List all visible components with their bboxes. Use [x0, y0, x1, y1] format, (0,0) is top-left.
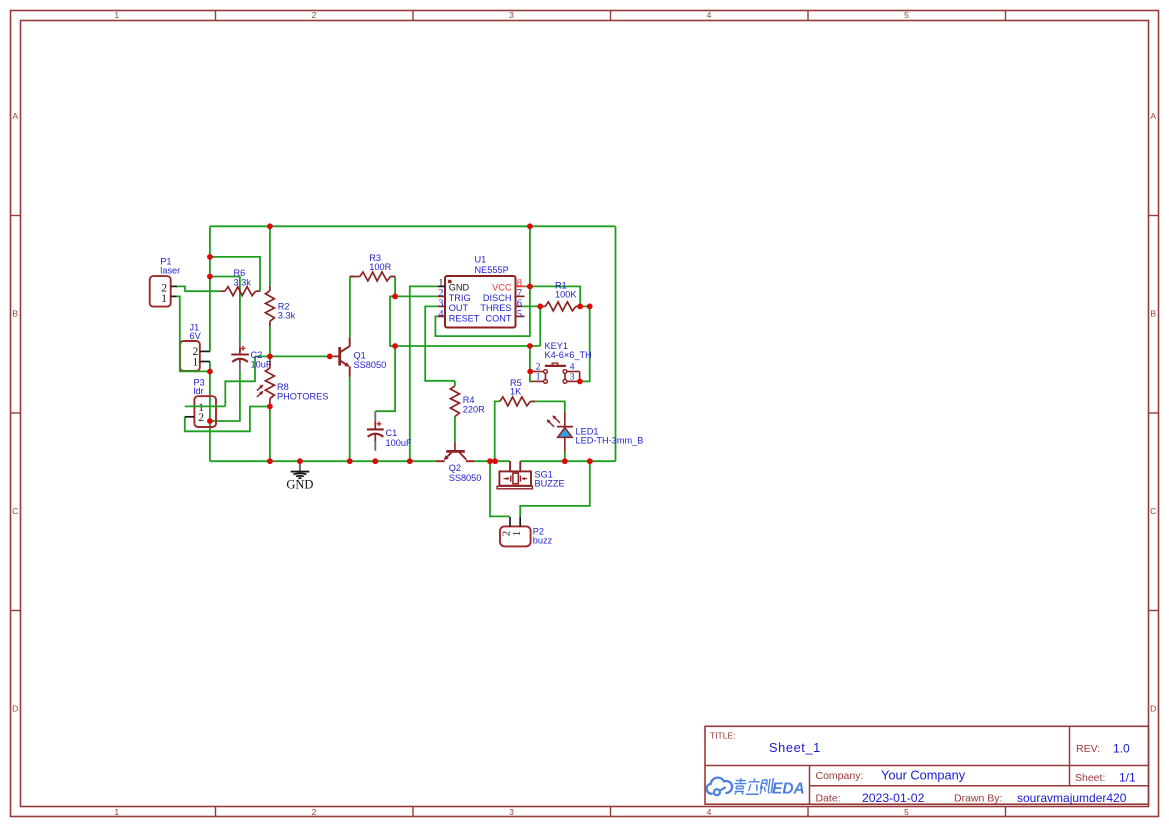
svg-text:3: 3 [509, 10, 514, 20]
svg-text:100R: 100R [369, 262, 391, 272]
svg-text:B: B [1150, 308, 1156, 318]
svg-text:D: D [1150, 703, 1156, 713]
svg-text:B: B [12, 308, 18, 318]
junction (375.3,461.2) [372, 458, 378, 464]
connector P3 (ldr) [185, 378, 216, 427]
wire THRES drop [539, 306, 541, 346]
svg-text:4: 4 [707, 10, 712, 20]
svg-text:souravmajumder420: souravmajumder420 [1017, 791, 1127, 805]
svg-text:1: 1 [193, 356, 199, 368]
svg-text:3.3k: 3.3k [234, 277, 252, 287]
svg-text:Sheet:: Sheet: [1075, 772, 1105, 784]
wire OUT to R4 [425, 306, 455, 380]
wire R5 to LED [530, 401, 564, 411]
junction (299.9,461.2) [297, 458, 303, 464]
wire P3 pin1 row [185, 405, 226, 407]
svg-text:3: 3 [570, 373, 575, 383]
wire node to R8 [269, 356, 271, 361]
pushbutton KEY1 K4-6x6_TH [531, 341, 592, 384]
svg-text:5: 5 [517, 309, 522, 320]
wire right loop [615, 226, 617, 461]
svg-text:1K: 1K [510, 387, 522, 397]
wire R2 to node [269, 326, 271, 356]
junction (490,461.2) [487, 458, 493, 464]
svg-text:RESET: RESET [449, 314, 480, 324]
svg-text:DISCH: DISCH [483, 293, 512, 303]
svg-text:Drawn By:: Drawn By: [954, 793, 1002, 805]
svg-text:buzz: buzz [533, 535, 553, 545]
wire Q1 collector to R3 [349, 277, 351, 338]
wire C2 top link [210, 277, 240, 343]
junction (329.8,356.4) [327, 354, 333, 360]
wire VCC top drop [529, 226, 531, 286]
svg-text:TITLE:: TITLE: [710, 731, 736, 741]
resistor R5 1K [500, 378, 535, 406]
capacitor C1 100uF [367, 411, 412, 451]
junction (579.9,381.4) [577, 379, 583, 385]
wire R5 drop [495, 401, 500, 461]
svg-text:BUZZE: BUZZE [535, 479, 565, 489]
junction (209.9,256.9) [207, 254, 213, 260]
junction (349.7,461.2) [347, 458, 353, 464]
svg-text:1: 1 [536, 373, 541, 383]
wire R3 to TRIG column [394, 277, 396, 297]
wire R8 bottom drop [269, 407, 271, 462]
svg-text:4: 4 [570, 363, 575, 373]
svg-text:Q2: Q2 [449, 463, 461, 473]
wire THRES [522, 305, 540, 307]
svg-text:ldr: ldr [194, 386, 204, 396]
resistor R6 3.3k [220, 268, 260, 296]
svg-text:5: 5 [904, 807, 909, 817]
svg-text:REV:: REV: [1076, 743, 1100, 755]
svg-text:6: 6 [517, 299, 522, 310]
resistor R3 100R [350, 253, 395, 281]
junction (529.9,226.3) [527, 223, 533, 229]
svg-text:1: 1 [161, 293, 167, 305]
svg-text:R4: R4 [463, 395, 475, 405]
svg-text:Your Company: Your Company [881, 767, 966, 782]
svg-text:2023-01-02: 2023-01-02 [862, 791, 925, 805]
svg-text:2: 2 [312, 807, 317, 817]
svg-text:A: A [1150, 111, 1156, 121]
svg-text:3: 3 [509, 807, 514, 817]
wire P2 pin2 loop [490, 461, 510, 516]
svg-text:Q1: Q1 [354, 350, 366, 360]
wire GND vertical [209, 371, 211, 461]
svg-text:K4-6×6_TH: K4-6×6_TH [545, 350, 592, 360]
svg-text:LED-TH-3mm_B: LED-TH-3mm_B [576, 436, 644, 446]
wire R3 right stub [391, 276, 396, 278]
junction (529.9,286.4) [527, 284, 533, 290]
wire R3 left stub [350, 276, 355, 278]
junction (564.8,461.2) [562, 458, 568, 464]
wire +V vertical [209, 226, 211, 351]
wire P1 pin1 to node [177, 296, 210, 371]
svg-text:100uF: 100uF [386, 438, 412, 448]
svg-text:100K: 100K [555, 290, 577, 300]
svg-text:2: 2 [312, 10, 317, 20]
svg-text:1: 1 [114, 807, 119, 817]
wire R4 to Q2 base [454, 417, 456, 443]
svg-text:4: 4 [707, 807, 712, 817]
junction (530.2,371.5) [527, 369, 533, 375]
wire rail SG1 to loop [520, 460, 615, 462]
resistor R2 3.3k [265, 286, 295, 327]
junction (495.1,461.2) [492, 458, 498, 464]
wire R6 right link [210, 257, 260, 291]
junction (209.9,421.0) [207, 418, 213, 424]
svg-text:1: 1 [114, 10, 119, 20]
svg-text:4: 4 [438, 309, 444, 320]
svg-text:C1: C1 [386, 428, 398, 438]
wire RESET to VCC [435, 286, 530, 336]
junction (209.9,276.5) [207, 274, 213, 280]
svg-text:220R: 220R [463, 405, 485, 415]
wire P3 pin1 to base node [225, 356, 255, 406]
svg-text:A: A [12, 111, 18, 121]
svg-text:1: 1 [511, 531, 523, 537]
junction (269.9,356.4) [267, 354, 273, 360]
junction (209.9,371.5) [207, 369, 213, 375]
svg-text:GND: GND [449, 282, 470, 292]
svg-text:VCC: VCC [492, 282, 512, 292]
transistor Q1 SS8050 [333, 337, 386, 377]
svg-text:1.0: 1.0 [1113, 742, 1130, 756]
wire C2 bottom return [210, 371, 240, 421]
junction (589.8,461.2) [587, 458, 593, 464]
connector P2 (buzz) [500, 517, 553, 546]
svg-text:D: D [12, 703, 18, 713]
svg-text:TRIG: TRIG [449, 293, 471, 303]
junction (269.9,406.5) [267, 404, 273, 410]
connector J1 (6V) [180, 322, 210, 371]
junction (540.2,306.4) [537, 304, 543, 310]
wire P3 pin2 to R8 [185, 407, 270, 432]
junction (589.7,306.4) [587, 304, 593, 310]
svg-text:1/1: 1/1 [1119, 770, 1136, 784]
resistor R4 220R [450, 386, 485, 417]
connector P1 (laser) [150, 256, 181, 306]
svg-text:GND: GND [286, 478, 313, 492]
junction (409.8,461.2) [407, 458, 413, 464]
svg-text:laser: laser [160, 266, 180, 276]
wire VCC pin8 link [526, 286, 581, 306]
svg-text:NE555P: NE555P [475, 265, 509, 275]
svg-text:3: 3 [438, 299, 443, 310]
wire P1 pin2 to R6 [177, 286, 221, 291]
svg-text:2: 2 [536, 363, 541, 373]
svg-text:SS8050: SS8050 [449, 473, 482, 483]
svg-text:6V: 6V [190, 331, 202, 341]
wire Q1 base node [255, 355, 333, 357]
wire KEY1 right drop [580, 306, 590, 381]
wire J1 pin1 drop [209, 362, 211, 372]
junction (395.1,296.4) [392, 294, 398, 300]
wire LED cathode [564, 452, 566, 462]
wire TRIG-THRES link [395, 345, 540, 347]
svg-text:SS8050: SS8050 [354, 360, 387, 370]
svg-text:C: C [12, 506, 18, 516]
wire R2 top [269, 226, 271, 286]
svg-text:U1: U1 [475, 255, 487, 265]
JLCEDA logo [707, 778, 805, 798]
LED LED1 LED-TH-3mm_B [547, 412, 643, 452]
svg-text:3.3k: 3.3k [278, 311, 296, 321]
title block [705, 726, 1149, 805]
junction (395.1,346) [392, 343, 398, 349]
resistor R1 100K [540, 280, 580, 311]
svg-text:Date:: Date: [816, 793, 841, 805]
svg-text:2: 2 [198, 412, 204, 424]
junction (269.9,461.2) [267, 458, 273, 464]
wire TRIG [395, 295, 438, 297]
wire KEY1 left drop [530, 346, 531, 381]
photoresistor R8 PHOTORES [257, 361, 329, 406]
wire TRIG to C1 [375, 346, 395, 411]
buzzer SG1 BUZZE [497, 461, 565, 489]
junction (529.9,346) [527, 343, 533, 349]
op-amp U1 NE555P [438, 255, 526, 328]
wire R1 right ext [580, 305, 590, 307]
wire GND rail left [210, 460, 436, 462]
svg-text:CONT: CONT [485, 314, 511, 324]
svg-text:5: 5 [904, 10, 909, 20]
svg-text:OUT: OUT [449, 303, 469, 313]
svg-text:PHOTORES: PHOTORES [277, 391, 328, 401]
capacitor C2 10uF [231, 342, 272, 372]
transistor Q2 SS8050 [436, 442, 482, 483]
svg-text:Company:: Company: [816, 770, 864, 782]
svg-text:EDA: EDA [772, 781, 805, 798]
wire TRIG jog [390, 296, 395, 346]
wire R4 top stub [454, 381, 456, 386]
svg-text:Sheet_1: Sheet_1 [769, 740, 821, 755]
junction (269.9,226.3) [267, 223, 273, 229]
wire top rail [210, 225, 616, 227]
wire rail Q2 to SG1 [474, 460, 510, 462]
ground symbol GND [286, 461, 313, 491]
svg-text:THRES: THRES [480, 303, 511, 313]
wire pin1 GND link [410, 286, 438, 461]
junction (580.2,306.4) [577, 304, 583, 310]
svg-text:C: C [1150, 506, 1156, 516]
wire Q1 emitter drop [349, 377, 351, 462]
wire P2 pin1 loop [520, 461, 590, 517]
